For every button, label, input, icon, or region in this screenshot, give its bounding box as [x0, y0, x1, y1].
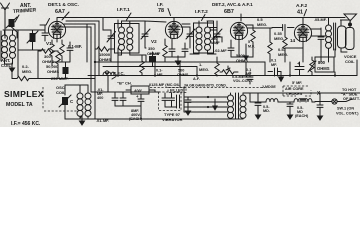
label gang [184, 84, 227, 88]
resistor V1 cathode [50, 44, 54, 62]
wire vibrator leads [184, 87, 228, 112]
svg-text:MEG.: MEG. [257, 22, 267, 27]
capacitor vibrator 1 [162, 93, 168, 107]
svg-text:A.F.: A.F. [193, 77, 200, 81]
svg-text:COIL: COIL [345, 59, 355, 64]
svg-text:500: 500 [178, 69, 184, 73]
label 15000 ohms [99, 52, 111, 62]
capacitor padder [107, 30, 116, 62]
svg-text:MEG.: MEG. [274, 36, 284, 41]
resistor 0.2 MEG [12, 76, 95, 80]
wire [91, 76, 200, 120]
vibrator contacts [165, 95, 180, 108]
capacitor 0.1MF output [268, 59, 281, 77]
transformer IFT1 shield box [115, 24, 140, 54]
svg-text:3A.GR.GANG 60*D. COND.: 3A.GR.GANG 60*D. COND. [184, 84, 227, 88]
transformer vibrator core [236, 93, 239, 119]
label DET1 OSC 6A7 [48, 2, 79, 20]
speaker cone [344, 14, 357, 22]
choke B box [131, 86, 149, 94]
svg-text:TO HOT: TO HOT [342, 88, 357, 92]
resistor 0.5 MEG [251, 25, 255, 57]
svg-text:A.F.2: A.F.2 [296, 3, 308, 9]
wire B+ bus [88, 75, 357, 77]
coil IFT2 primary [190, 21, 202, 54]
resistor 1 MEG [215, 57, 219, 76]
capacitor ANT TRIMMER [6, 17, 17, 38]
tube V2 78 [151, 21, 183, 44]
resistor volume control 0.5-MEG [220, 66, 238, 74]
svg-text:5′ MF.: 5′ MF. [292, 81, 302, 85]
label 300 ohms [42, 54, 54, 64]
svg-text:DET.1 & OSC.: DET.1 & OSC. [48, 2, 79, 8]
vibrator dashed box [159, 92, 182, 111]
label TYPE 97 VIBRATOR [162, 112, 183, 122]
label 0.5 MD each [263, 105, 270, 113]
svg-text:OHMS: OHMS [177, 73, 189, 77]
label IF 78 [157, 2, 171, 16]
svg-text:.05-MF.: .05-MF. [314, 18, 327, 22]
label IFT1 [117, 7, 131, 20]
label 1 MEG [199, 62, 209, 72]
svg-text:6A7: 6A7 [55, 9, 65, 15]
svg-text:400: 400 [97, 96, 103, 100]
ground 6B7 [244, 44, 248, 60]
svg-text:SW.1 (ON: SW.1 (ON [337, 107, 354, 111]
ground 0.1MF [279, 72, 284, 82]
capacitor grid coupling [42, 26, 48, 41]
svg-text:2 MDGE: 2 MDGE [262, 85, 276, 89]
svg-text:I.F.T.2: I.F.T.2 [195, 9, 208, 15]
wire [165, 24, 190, 62]
transformer IFT2 shield box [194, 23, 214, 53]
capacitor C1 tuning [27, 30, 38, 50]
wire [65, 24, 99, 119]
coil air core choke 2 [284, 99, 315, 102]
label .01-MF bottom [96, 119, 109, 123]
label 0.5 MD each 2 [295, 106, 309, 118]
capacitor V2 screen [182, 43, 188, 57]
coil osc secondary [85, 85, 91, 118]
svg-text:800: 800 [318, 60, 326, 65]
resistor 50000 [56, 51, 60, 66]
node [207, 96, 209, 98]
svg-text:DET.2, AVC.& A.F.1: DET.2, AVC.& A.F.1 [212, 2, 253, 7]
coil IFT1 primary [118, 21, 125, 55]
svg-text:I.F.T.1: I.F.T.1 [117, 7, 130, 13]
svg-text:MEG.: MEG. [278, 52, 288, 57]
capacitor C osc tuning [59, 92, 74, 112]
svg-text:MEG.: MEG. [199, 67, 209, 72]
resistor 15000 ohms [95, 47, 114, 51]
svg-text:OHMS: OHMS [317, 66, 330, 71]
coil air core choke 1 [262, 99, 284, 102]
capacitor V2 bypass [169, 39, 175, 57]
coil vibrator transformer secondary [240, 93, 246, 119]
wire left edge [0, 31, 2, 61]
ground vibrator arrow [213, 99, 217, 110]
resistor 0.5 meg grid [283, 30, 287, 62]
svg-text:MF.: MF. [157, 73, 163, 77]
label 2 MEGS [262, 85, 276, 89]
label VOICE COIL [344, 54, 357, 64]
svg-text:VOL. CONT.): VOL. CONT.) [336, 112, 359, 116]
capacitor .01-MF 400 b [120, 92, 126, 106]
svg-text:OHMS: OHMS [47, 69, 59, 74]
label AIR CORE CHOKES [283, 86, 311, 96]
wire [118, 49, 335, 87]
label .01-MF 400 [97, 88, 104, 100]
wire [95, 18, 180, 63]
label 0.35 MEG [274, 31, 284, 41]
svg-text:OF BATT.: OF BATT. [343, 97, 360, 101]
label 0.1 MF bus [156, 69, 163, 78]
wire [122, 18, 175, 49]
wire [12, 51, 58, 79]
svg-text:0.1-MF.: 0.1-MF. [68, 44, 82, 49]
svg-text:“B” CH.: “B” CH. [117, 81, 132, 86]
svg-text:“A” SIDE: “A” SIDE [341, 93, 358, 97]
svg-text:V1: V1 [46, 41, 52, 46]
capacitor 250MMF grid [207, 21, 222, 42]
svg-text:AIR CORE: AIR CORE [285, 87, 304, 91]
svg-text:SIMPLEX: SIMPLEX [4, 89, 44, 99]
capacitor electrolytic 8MF [136, 94, 144, 106]
label TO HOT A SIDE [341, 88, 360, 101]
label SW1 [336, 107, 359, 116]
label 5 MF [248, 40, 255, 49]
label 5 MF [292, 81, 302, 85]
label 50000 ohms [46, 64, 59, 74]
resistor 350 ohms [163, 39, 167, 62]
capacitor IFT2 trimmer 2 [213, 21, 222, 44]
svg-text:MMF: MMF [211, 41, 220, 45]
coil RFC [103, 71, 115, 76]
ground below ant coil [9, 63, 14, 72]
label DET2 AVC AF1 6B7 [212, 2, 253, 21]
capacitor choke bypass 1 [287, 102, 293, 110]
svg-text:.05-MF: .05-MF [149, 52, 161, 56]
label 830 OHMS box [315, 57, 334, 72]
svg-text:MEG.: MEG. [22, 69, 32, 74]
wire top bus [57, 18, 345, 22]
label .02-MF [214, 48, 227, 53]
capacitor IFT1 trimmer [141, 28, 150, 44]
wire right edge [335, 60, 357, 76]
label 350 ohms [147, 46, 159, 56]
wire grid cap [40, 19, 50, 26]
label 5000 ohms [236, 53, 248, 63]
svg-text:(EACH): (EACH) [295, 114, 309, 118]
capacitor vibrator output [255, 93, 261, 110]
label AF2 41 [296, 3, 308, 16]
coil L1 antenna primary [2, 30, 8, 64]
capacitor .02MF [228, 40, 234, 57]
capacitor .01-MF 400 [112, 92, 118, 106]
svg-text:R.F.C.: R.F.C. [113, 71, 125, 76]
svg-text:V2: V2 [151, 39, 157, 44]
speaker voice coil [341, 20, 355, 50]
resistor V1 bias [60, 44, 64, 62]
tube V4 41 [290, 24, 312, 43]
capacitor coupling to 41 [272, 25, 294, 31]
label FILLED dashed [168, 88, 186, 93]
coil output transformer primary [326, 18, 332, 63]
ground vibrator input [185, 106, 190, 115]
svg-text:I.F.= 456 KC.: I.F.= 456 KC. [11, 121, 41, 127]
label 0.2 MEG [22, 64, 32, 74]
coil L2 antenna secondary [10, 30, 16, 64]
ground V2 [175, 56, 180, 65]
label SIMPLEX [4, 89, 44, 127]
label 0.5 MEG [257, 17, 267, 27]
capacitor 250MMF [63, 62, 69, 79]
svg-text:5: 5 [248, 40, 250, 44]
wire plate leads V1 [62, 21, 99, 75]
dashed gang line [150, 87, 265, 89]
ground cap [255, 110, 260, 119]
svg-text:.0125-MF (MC.OIL: .0125-MF (MC.OIL [148, 83, 181, 87]
svg-text:14: 14 [290, 38, 296, 43]
coil vibrator transformer primary [228, 93, 234, 119]
svg-text:+: + [136, 94, 139, 99]
X mark [317, 91, 321, 97]
coil output transformer secondary [338, 20, 347, 52]
label ANT COIL [1, 58, 11, 68]
svg-text:MD.: MD. [263, 109, 270, 113]
node A [94, 61, 96, 63]
antenna [1, 3, 10, 38]
label 250 MMF [211, 37, 220, 45]
coil IFT1 secondary [127, 21, 146, 62]
label 8MF 400V EACH [129, 109, 143, 121]
capacitor electrolytic 5MF [295, 61, 304, 76]
label 0.5 MEG [278, 47, 288, 57]
node bus dots [117, 74, 336, 76]
ground output filter [317, 111, 322, 120]
capacitor vibrator 2 [169, 93, 175, 107]
resistor 500 ohms [140, 55, 144, 76]
wire [180, 25, 272, 62]
ground osc [79, 116, 84, 125]
wire [285, 18, 326, 63]
capacitor 0.1MF V1 [67, 42, 82, 56]
node [207, 106, 209, 108]
label ANT TRIMMER [13, 3, 37, 22]
svg-text:M.F.: M.F. [248, 45, 255, 49]
svg-text:0.1-: 0.1- [156, 69, 163, 73]
wire [250, 101, 262, 103]
svg-text:OHMS: OHMS [99, 57, 111, 62]
tube V3 6B7 [230, 22, 247, 39]
capacitor IFT2 trimmer 1 [186, 29, 195, 48]
svg-text:6B7: 6B7 [224, 9, 234, 15]
svg-text:41: 41 [297, 10, 303, 16]
transformer core [334, 23, 336, 50]
capacitor vibrator input [185, 97, 191, 106]
resistor 300 ohms [38, 49, 58, 53]
shield dashed corner [43, 87, 77, 111]
label IFT2 [195, 9, 208, 21]
svg-text:CHOKES: CHOKES [286, 92, 303, 96]
resistor field [308, 57, 316, 76]
svg-text:400′: 400′ [134, 89, 142, 94]
coil IFT2 secondary [205, 21, 217, 54]
wire [52, 39, 70, 66]
label .0125-MF [148, 83, 181, 87]
wire [341, 20, 351, 52]
svg-text:VIBRATOR: VIBRATOR [162, 117, 183, 122]
wire [3, 30, 28, 64]
ground choke 1 [287, 110, 292, 119]
label 250 MMF [51, 76, 69, 81]
label RFC [112, 71, 125, 79]
label OSC COIL [56, 85, 66, 95]
label B CH [117, 81, 132, 86]
capacitor .05 MF [314, 18, 327, 48]
capacitor output filter [317, 93, 323, 111]
wire [200, 93, 360, 119]
svg-text:0.1: 0.1 [271, 59, 276, 63]
svg-text:.02-MF: .02-MF [214, 48, 227, 53]
svg-text:MODEL TA: MODEL TA [6, 102, 33, 108]
capacitor 0.1 MF bus [149, 52, 161, 67]
svg-text:MF.: MF. [103, 119, 109, 123]
coil osc primary [77, 85, 83, 118]
switch SW1 [315, 99, 352, 104]
svg-text:78: 78 [158, 8, 164, 14]
wire [18, 26, 45, 64]
wire mid bus [103, 67, 197, 76]
label VOL CONT [232, 75, 253, 83]
capacitor 0.1 MF [246, 68, 253, 84]
label 500 ohms [177, 69, 189, 78]
resistor 0.35 MEG [268, 28, 272, 62]
tube V1 6A7 [46, 21, 66, 46]
svg-text:MF.: MF. [271, 63, 277, 67]
label AF [193, 77, 200, 81]
